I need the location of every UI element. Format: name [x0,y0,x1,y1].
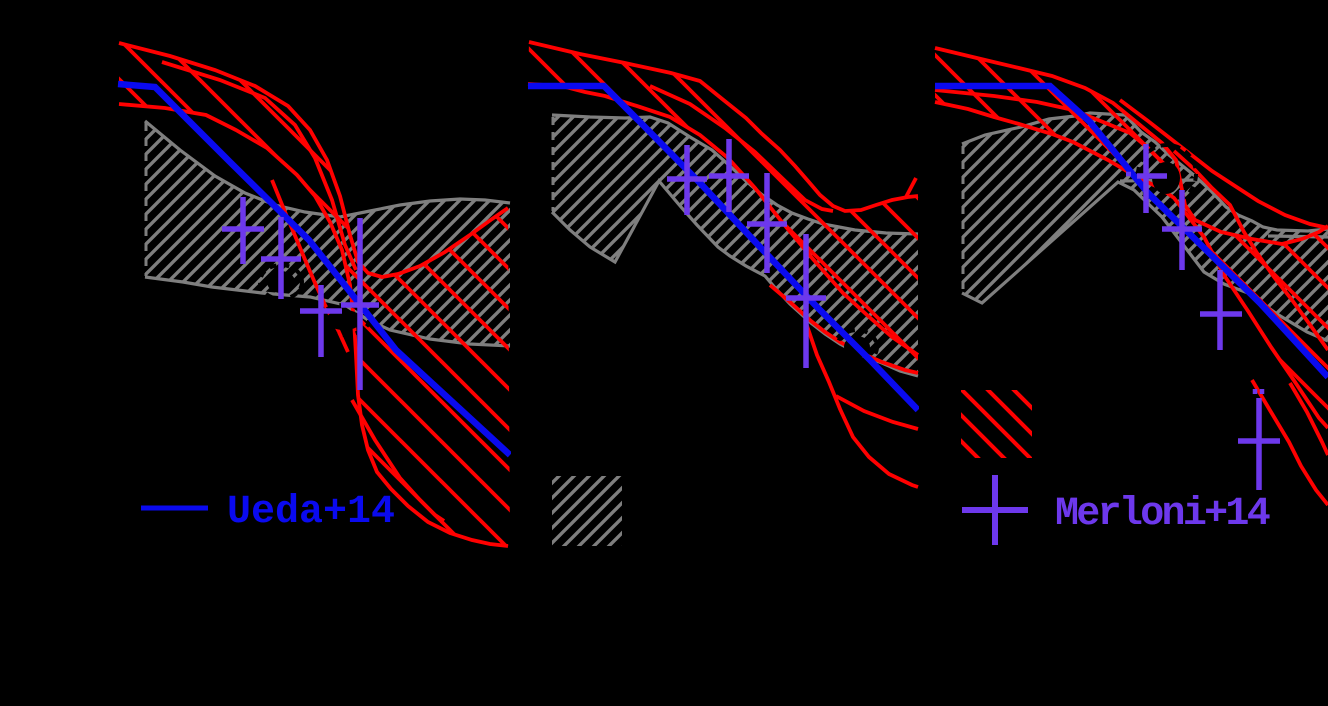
purple cross A [1137,144,1167,213]
legend: Ueda+14 [141,490,395,535]
purple dash marks [1126,174,1262,394]
gray band left dashed edge [145,123,148,276]
blue model line [935,86,1328,377]
red steep crossing line [272,180,348,352]
red lower hook b [805,320,918,487]
red lower curve c2 [1290,383,1328,455]
purple cross A [222,197,264,264]
red band lower edge [935,102,1328,428]
purple cross B [709,139,749,212]
red inner upper line [1120,100,1328,228]
gray band top edge [145,121,510,217]
purple cross D [341,218,379,390]
red band upper edge [529,42,918,211]
svg-text:Merloni+14: Merloni+14 [1055,492,1270,537]
purple cross D [786,234,826,368]
gray band fill [552,115,918,376]
red leaf line [352,400,444,521]
red line along gray bottom [770,285,918,373]
gray band fill [145,121,510,346]
red steep mid line [1174,151,1328,350]
black marker circle [1138,145,1196,203]
blue model line [528,86,918,410]
purple cross B [261,217,301,299]
red inner edge [162,62,356,270]
purple cross A [667,145,707,215]
gray band fill [962,113,1328,341]
gray second top line [1268,236,1328,237]
red lower curve c [836,396,918,429]
red band fill [935,48,1328,428]
red band fill [528,42,918,367]
red lower curve c1 [1252,380,1328,505]
black marker circle 1 [260,265,302,299]
red dip end hook [906,178,916,197]
legend: Merloni+14 cross [962,475,1028,545]
gray band left dashed edge [962,146,965,291]
gray band bottom edge [145,277,510,346]
black marker circle 2 [319,305,369,335]
purple cross C [1200,270,1242,350]
gray band top edge [962,113,1328,231]
red band lower edge [528,84,918,355]
red band lower edge [119,104,508,546]
red band fill [119,43,510,546]
red band upper edge [935,48,1328,244]
black marker circle [837,330,877,364]
legend: red hatch swatch [961,390,1032,458]
gray shelf line [1120,180,1198,181]
red band upper edge [119,43,508,277]
red mid line under blue [935,90,1166,166]
red band inner upper line [650,86,833,211]
purple cross C [747,173,787,273]
purple cross C [300,285,342,357]
gray band top edge [552,115,918,234]
gray band bottom edge [552,181,918,376]
svg-text:Ueda+14: Ueda+14 [227,490,395,535]
gray band bottom edge [962,182,1328,341]
gray band left dashed edge [552,117,555,211]
blue model line [118,84,510,455]
legend: gray hatch swatch [552,476,622,546]
purple cross B [1162,190,1202,270]
purple cross D [1238,398,1280,490]
